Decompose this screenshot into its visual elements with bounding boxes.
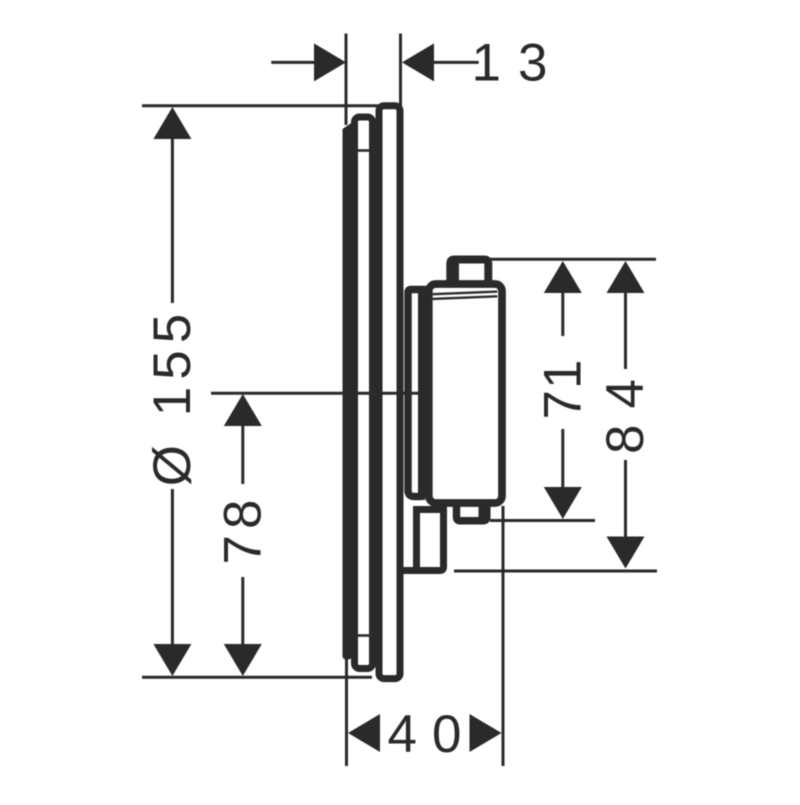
svg-text:13: 13	[472, 34, 565, 93]
svg-text:71: 71	[533, 359, 592, 420]
svg-text:Ø 155: Ø 155	[143, 307, 202, 486]
svg-text:40: 40	[388, 705, 477, 764]
svg-text:84: 84	[596, 363, 655, 454]
svg-text:78: 78	[213, 494, 272, 565]
